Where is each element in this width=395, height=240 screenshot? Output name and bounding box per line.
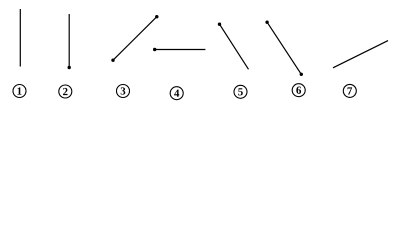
label 7 (circled digit 7) [343,84,356,97]
endpoint dot of line 3 (upper-right) [155,15,158,18]
endpoint dot of line 4 (left) [153,48,156,51]
endpoint dot of line 5 (top) [218,23,221,26]
line segment 3 (diagonal) [113,17,157,61]
label 4 (circled digit 4) [170,87,183,100]
label 6 (circled digit 6) [292,84,305,97]
label 1 (circled digit 1) [13,85,26,98]
endpoint dot of line 6 (bottom) [300,73,303,76]
endpoint dot of line 3 (lower-left) [111,59,114,62]
line segment 5 (diagonal ray) [220,24,249,69]
line segment 7 (diagonal) [333,41,388,68]
endpoint dot of line 2 (bottom) [68,66,71,69]
line segment 1 (vertical line) [19,9,21,67]
label 5 (circled digit 5) [234,85,247,98]
endpoint dot of line 6 (top) [265,21,268,24]
line segment 2 (vertical ray) [68,14,70,68]
line segment 6 (diagonal) [267,22,301,74]
label 3 (circled digit 3) [117,85,130,98]
line segment 4 (horizontal ray) [155,49,206,51]
label 2 (circled digit 2) [59,85,72,98]
